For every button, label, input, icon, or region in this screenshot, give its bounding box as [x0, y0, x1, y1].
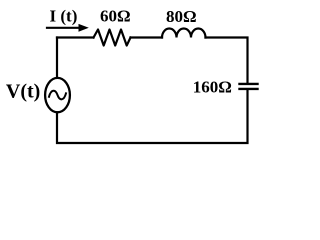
svg-text:I (t): I (t) [50, 6, 78, 25]
svg-text:160Ω: 160Ω [193, 77, 232, 96]
svg-text:80Ω: 80Ω [166, 7, 197, 26]
svg-text:60Ω: 60Ω [100, 7, 131, 26]
svg-text:V(t): V(t) [6, 80, 40, 102]
